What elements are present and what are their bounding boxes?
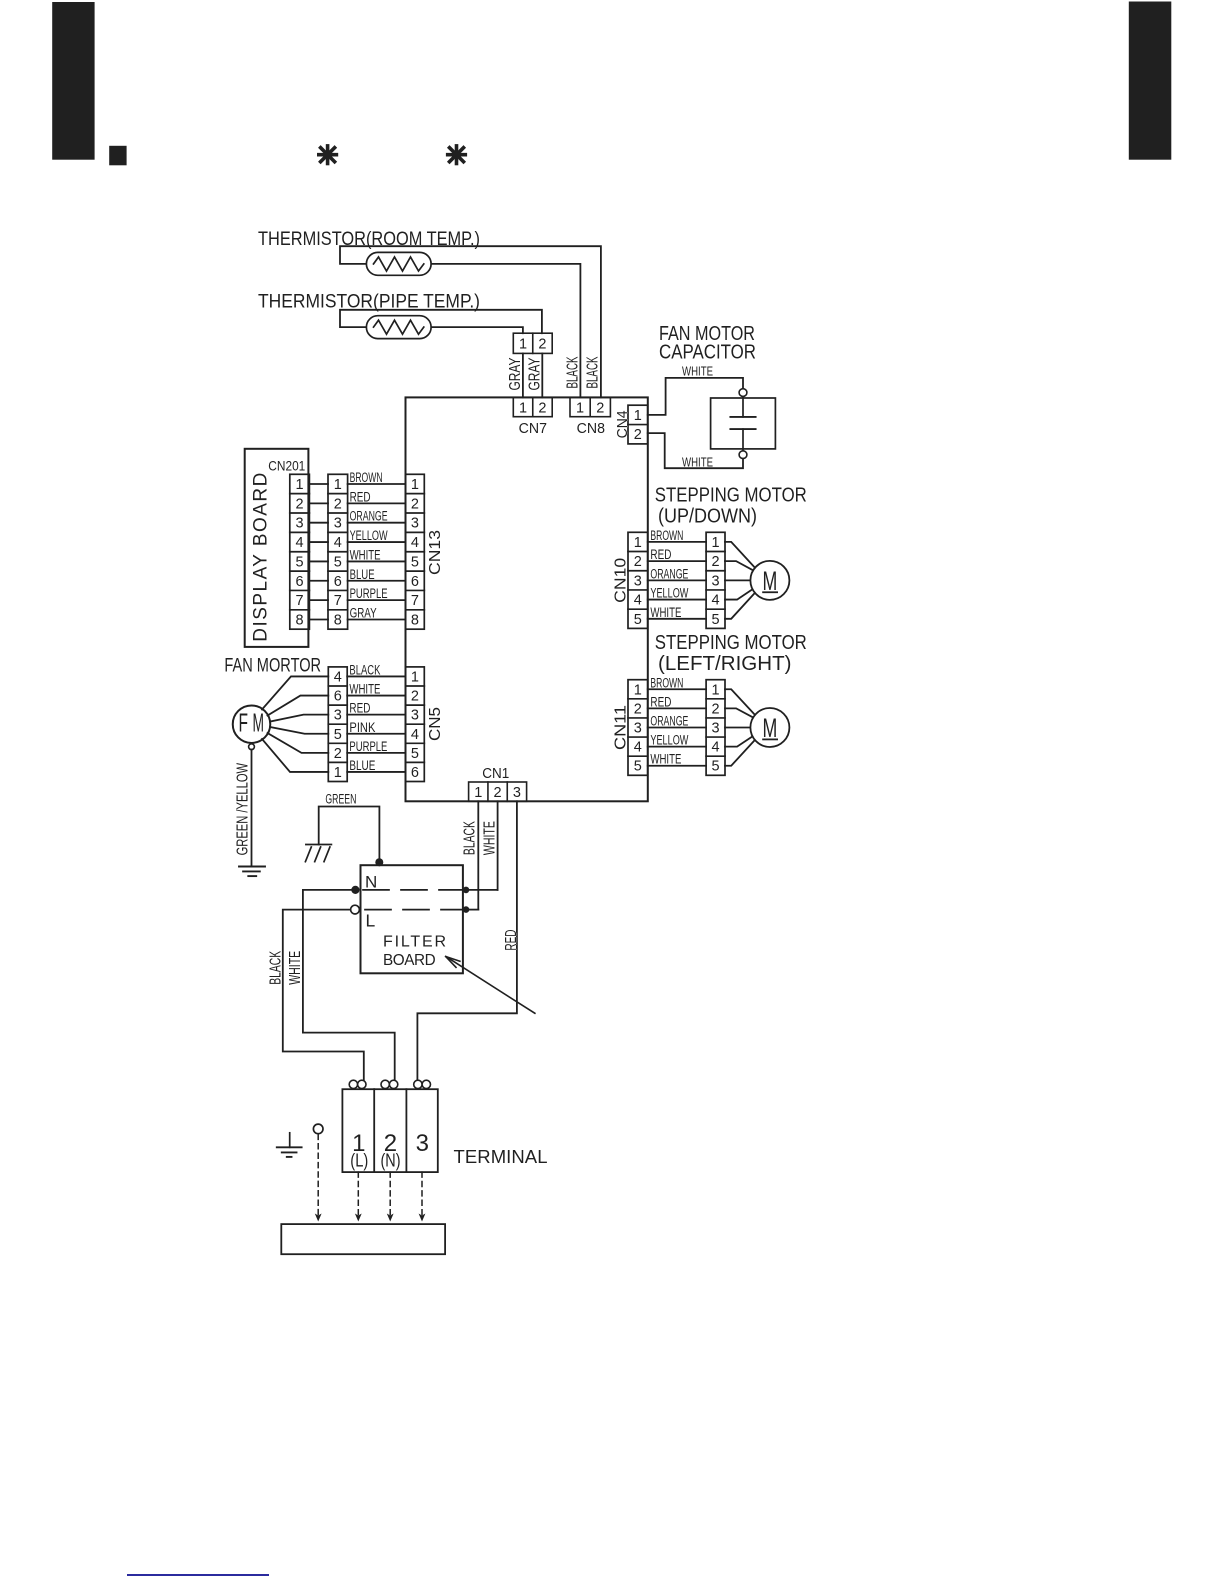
svg-text:BROWN: BROWN — [650, 675, 683, 690]
svg-text:2: 2 — [538, 400, 546, 416]
connector CN201 pin column — [290, 474, 310, 629]
mains supply box — [281, 1224, 445, 1254]
svg-text:L: L — [366, 911, 376, 931]
wire CN1 pin1 (black) to filter board L — [477, 801, 479, 909]
svg-text:1: 1 — [576, 400, 584, 416]
svg-text:FAN MORTOR: FAN MORTOR — [224, 655, 321, 676]
svg-text:1: 1 — [519, 337, 527, 353]
svg-text:6: 6 — [411, 574, 419, 590]
svg-text:CAPACITOR: CAPACITOR — [659, 342, 756, 364]
thermistor (room temp.) body — [366, 252, 431, 275]
svg-text:2: 2 — [296, 496, 304, 512]
svg-text:BOARD: BOARD — [383, 952, 436, 969]
svg-text:3: 3 — [712, 721, 720, 737]
svg-text:WHITE: WHITE — [482, 821, 499, 855]
main control PCB outline — [406, 397, 648, 801]
svg-text:3: 3 — [334, 516, 342, 532]
wire N to terminal 2 (white) — [303, 890, 395, 1080]
svg-text:4: 4 — [296, 535, 304, 551]
svg-text:YELLOW: YELLOW — [650, 586, 688, 601]
svg-text:1: 1 — [474, 785, 482, 801]
thermistor (pipe temp.) body — [366, 316, 431, 339]
FM ground terminal — [249, 744, 255, 750]
asterisk mark 1 — [326, 146, 330, 164]
svg-text:2: 2 — [411, 689, 419, 705]
svg-text:4: 4 — [712, 740, 720, 756]
svg-text:GREEN /YELLOW: GREEN /YELLOW — [235, 762, 252, 855]
svg-text:3: 3 — [411, 708, 419, 724]
svg-text:WHITE: WHITE — [682, 456, 713, 470]
svg-text:4: 4 — [634, 740, 642, 756]
stepping motor M — [750, 561, 789, 600]
svg-text:PINK: PINK — [349, 720, 375, 735]
svg-text:STEPPING MOTOR: STEPPING MOTOR — [655, 485, 807, 507]
connector CN5 — [406, 667, 425, 782]
svg-text:1: 1 — [334, 477, 342, 493]
earth wire terminal — [313, 1124, 323, 1134]
dashed leads to mains — [357, 1172, 359, 1214]
svg-text:BROWN: BROWN — [650, 528, 683, 543]
svg-text:1: 1 — [411, 477, 419, 493]
svg-text:3: 3 — [411, 516, 419, 532]
capacitor terminal top — [739, 389, 747, 397]
stepping motor M — [750, 708, 789, 747]
node N terminal — [351, 886, 359, 894]
svg-text:BLACK: BLACK — [565, 356, 582, 388]
svg-text:GRAY: GRAY — [507, 357, 524, 390]
earth ground symbol FM — [239, 866, 265, 868]
dashed link L — [365, 909, 465, 911]
wire L right to CN1 pin1 — [466, 909, 478, 911]
svg-text:ORANGE: ORANGE — [350, 509, 388, 524]
svg-text:2: 2 — [712, 554, 720, 570]
svg-text:8: 8 — [411, 613, 419, 629]
svg-text:CN10: CN10 — [613, 558, 630, 603]
svg-text:WHITE: WHITE — [682, 364, 713, 378]
display cable plug column — [328, 474, 348, 629]
junction green/filter board — [375, 858, 383, 866]
wire plug pin1 to CN7 pin1 (gray) — [522, 353, 524, 397]
connector CN11 — [628, 680, 648, 776]
blue footer underline — [127, 1574, 270, 1576]
svg-text:GRAY: GRAY — [350, 606, 377, 621]
svg-text:3: 3 — [634, 721, 642, 737]
svg-text:WHITE: WHITE — [350, 547, 381, 562]
junction N right — [463, 887, 470, 894]
svg-text:RED: RED — [650, 694, 671, 709]
wire room thermistor lead 2 to CN8 pin1 (black) — [431, 264, 580, 398]
wires FM to fan plug — [262, 676, 328, 709]
svg-text:5: 5 — [634, 612, 642, 628]
wire CN1 pin2 (white) to filter board N — [497, 801, 499, 890]
wires plug to CN13 — [348, 483, 406, 485]
terminal block — [342, 1089, 437, 1172]
svg-text:1: 1 — [712, 535, 720, 551]
svg-text:3: 3 — [416, 1130, 429, 1157]
wire green to filter board — [319, 807, 380, 866]
wire CN1 pin3 (red) to terminal 3 — [417, 801, 517, 1080]
svg-text:3: 3 — [296, 516, 304, 532]
svg-text:4: 4 — [712, 593, 720, 609]
svg-text:6: 6 — [296, 574, 304, 590]
wires CN201 to plug — [309, 483, 328, 485]
terminal screws — [349, 1080, 357, 1088]
connector CN10 — [628, 532, 648, 628]
svg-text:CN1: CN1 — [482, 766, 509, 782]
svg-text:WHITE: WHITE — [287, 951, 304, 985]
svg-text:5: 5 — [334, 554, 342, 570]
svg-text:(LEFT/RIGHT): (LEFT/RIGHT) — [658, 653, 792, 675]
wires fan plug to CN5 — [347, 675, 405, 677]
svg-text:STEPPING MOTOR: STEPPING MOTOR — [655, 632, 807, 654]
svg-text:2: 2 — [596, 400, 604, 416]
dashed link N — [363, 889, 465, 891]
svg-text:ORANGE: ORANGE — [650, 714, 688, 729]
svg-text:(UP/DOWN): (UP/DOWN) — [658, 505, 757, 527]
svg-text:N: N — [365, 873, 377, 892]
svg-text:PURPLE: PURPLE — [349, 739, 387, 754]
svg-text:GREEN: GREEN — [325, 792, 356, 807]
svg-text:RED: RED — [349, 701, 370, 716]
connector CN1 — [469, 782, 527, 801]
stepping motor plug column — [706, 680, 725, 776]
wire CN4 pin1 to capacitor (white) — [648, 378, 743, 415]
earth ground symbol terminal — [289, 1133, 291, 1148]
svg-text:(L): (L) — [350, 1150, 368, 1171]
svg-text:ORANGE: ORANGE — [650, 566, 688, 581]
svg-text:CN201: CN201 — [268, 457, 305, 473]
fan motor capacitor C1 — [711, 398, 776, 449]
svg-text:3: 3 — [513, 785, 521, 801]
svg-text:1: 1 — [296, 477, 304, 493]
wires CN10 to motor plug — [648, 541, 706, 543]
chassis ground symbol — [306, 844, 332, 846]
fan motor FM — [233, 705, 271, 743]
svg-text:CN13: CN13 — [427, 530, 444, 575]
svg-text:F: F — [239, 708, 249, 738]
svg-text:4: 4 — [411, 535, 419, 551]
svg-text:4: 4 — [334, 669, 342, 685]
svg-text:3: 3 — [712, 573, 720, 589]
svg-text:2: 2 — [334, 496, 342, 512]
svg-text:BLACK: BLACK — [585, 356, 602, 388]
wire N right to CN1 pin2 — [466, 889, 497, 891]
svg-text:3: 3 — [634, 573, 642, 589]
svg-text:WHITE: WHITE — [650, 605, 681, 620]
svg-text:4: 4 — [634, 593, 642, 609]
connector CN4 — [628, 405, 648, 444]
svg-text:5: 5 — [296, 554, 304, 570]
capacitor terminal bottom — [739, 451, 747, 459]
svg-text:5: 5 — [411, 746, 419, 762]
svg-text:CN11: CN11 — [613, 705, 630, 750]
node L terminal — [351, 905, 360, 914]
svg-text:BLUE: BLUE — [349, 758, 375, 773]
connector CN8 — [570, 397, 610, 416]
filter board outline — [361, 865, 463, 973]
svg-text:M: M — [253, 708, 265, 738]
annotation arrow to filter board — [447, 957, 535, 1013]
page heading redaction bar left — [52, 2, 94, 160]
wires CN11 to motor plug — [648, 688, 706, 690]
asterisk mark 2 — [455, 146, 459, 164]
stepping motor plug column — [706, 532, 725, 628]
wire L to terminal 1 (black) — [283, 910, 364, 1080]
junction L right — [463, 906, 470, 913]
svg-text:7: 7 — [296, 593, 304, 609]
svg-text:1: 1 — [712, 682, 720, 698]
svg-text:WHITE: WHITE — [349, 682, 380, 697]
wire pipe thermistor lead 1 to plug pin2 (gray) — [340, 310, 542, 333]
svg-text:1: 1 — [334, 765, 342, 781]
svg-text:BLACK: BLACK — [268, 951, 285, 985]
wire room thermistor lead 1 to CN8 pin2 (black) — [340, 246, 601, 397]
svg-text:YELLOW: YELLOW — [650, 733, 688, 748]
svg-text:BLACK: BLACK — [349, 662, 380, 677]
svg-text:2: 2 — [634, 554, 642, 570]
thermistor plug connector (pins 1 2) — [513, 333, 552, 353]
svg-text:4: 4 — [411, 727, 419, 743]
svg-text:2: 2 — [634, 427, 642, 443]
svg-text:7: 7 — [411, 593, 419, 609]
svg-text:8: 8 — [334, 613, 342, 629]
svg-text:DISPLAY BOARD: DISPLAY BOARD — [251, 473, 272, 642]
display board outline — [245, 449, 309, 647]
wires motor plug to motor — [725, 689, 757, 717]
svg-text:2: 2 — [634, 701, 642, 717]
connector CN13 — [406, 474, 425, 629]
svg-text:BROWN: BROWN — [350, 470, 383, 485]
wire plug pin2 to CN7 pin2 (gray) — [541, 353, 543, 397]
svg-text:CN4: CN4 — [615, 410, 631, 438]
connector CN7 — [513, 397, 552, 416]
svg-text:2: 2 — [494, 785, 502, 801]
svg-text:(N): (N) — [381, 1150, 401, 1171]
svg-text:RED: RED — [350, 489, 371, 504]
svg-text:1: 1 — [411, 669, 419, 685]
svg-text:5: 5 — [712, 759, 720, 775]
svg-text:PURPLE: PURPLE — [350, 586, 388, 601]
svg-text:2: 2 — [712, 701, 720, 717]
svg-text:FILTER: FILTER — [383, 933, 446, 950]
wire pipe thermistor lead 2 to plug pin1 (gray) — [431, 327, 523, 333]
svg-text:TERMINAL: TERMINAL — [454, 1146, 548, 1167]
svg-text:5: 5 — [411, 554, 419, 570]
svg-text:BLACK: BLACK — [462, 821, 479, 855]
svg-text:5: 5 — [334, 727, 342, 743]
svg-text:WHITE: WHITE — [650, 752, 681, 767]
svg-text:7: 7 — [334, 593, 342, 609]
svg-text:1: 1 — [634, 535, 642, 551]
fan motor plug column — [328, 667, 347, 782]
wire CN4 pin2 to capacitor (white) — [648, 433, 743, 468]
wire FM to earth ground (green/yellow) — [251, 750, 253, 866]
svg-text:2: 2 — [411, 496, 419, 512]
svg-text:GRAY: GRAY — [526, 357, 543, 390]
wires motor plug to motor — [725, 542, 757, 570]
svg-text:6: 6 — [334, 574, 342, 590]
svg-text:3: 3 — [334, 708, 342, 724]
svg-text:RED: RED — [650, 547, 671, 562]
page heading redaction bar right — [1129, 2, 1172, 160]
svg-text:5: 5 — [712, 612, 720, 628]
svg-text:CN5: CN5 — [427, 707, 444, 741]
svg-text:1: 1 — [634, 682, 642, 698]
svg-text:6: 6 — [334, 689, 342, 705]
svg-text:CN7: CN7 — [519, 421, 547, 437]
svg-text:CN8: CN8 — [577, 421, 605, 437]
svg-text:1: 1 — [634, 408, 642, 424]
svg-text:YELLOW: YELLOW — [350, 528, 388, 543]
svg-text:8: 8 — [296, 613, 304, 629]
svg-text:6: 6 — [411, 765, 419, 781]
svg-text:BLUE: BLUE — [350, 567, 375, 582]
svg-text:2: 2 — [334, 746, 342, 762]
svg-text:2: 2 — [538, 337, 546, 353]
svg-text:5: 5 — [634, 759, 642, 775]
svg-text:1: 1 — [519, 400, 527, 416]
page heading period square — [109, 146, 126, 166]
svg-text:4: 4 — [334, 535, 342, 551]
svg-text:RED: RED — [503, 930, 520, 951]
